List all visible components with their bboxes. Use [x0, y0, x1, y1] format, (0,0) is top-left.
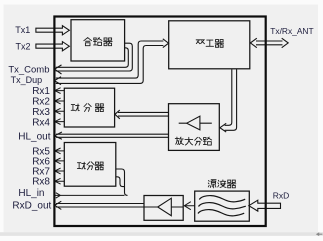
svg-text:RxD_out: RxD_out	[12, 200, 51, 211]
svg-text:Tx_Comb: Tx_Comb	[8, 64, 49, 75]
svg-text:Rx2: Rx2	[32, 97, 50, 108]
svg-text:Tx_Dup: Tx_Dup	[11, 75, 43, 85]
svg-text:Rx1: Rx1	[32, 86, 50, 97]
svg-text:Rx8: Rx8	[32, 177, 50, 188]
svg-text:RxD: RxD	[273, 190, 290, 200]
svg-text:HL_in: HL_in	[18, 188, 44, 199]
svg-text:Tx/Rx_ANT: Tx/Rx_ANT	[270, 26, 313, 36]
svg-text:Rx4: Rx4	[32, 118, 50, 129]
svg-text:Rx3: Rx3	[32, 107, 50, 118]
svg-text:Tx2: Tx2	[15, 41, 30, 51]
svg-text:Tx1: Tx1	[15, 25, 30, 35]
svg-text:HL_out: HL_out	[18, 132, 50, 143]
